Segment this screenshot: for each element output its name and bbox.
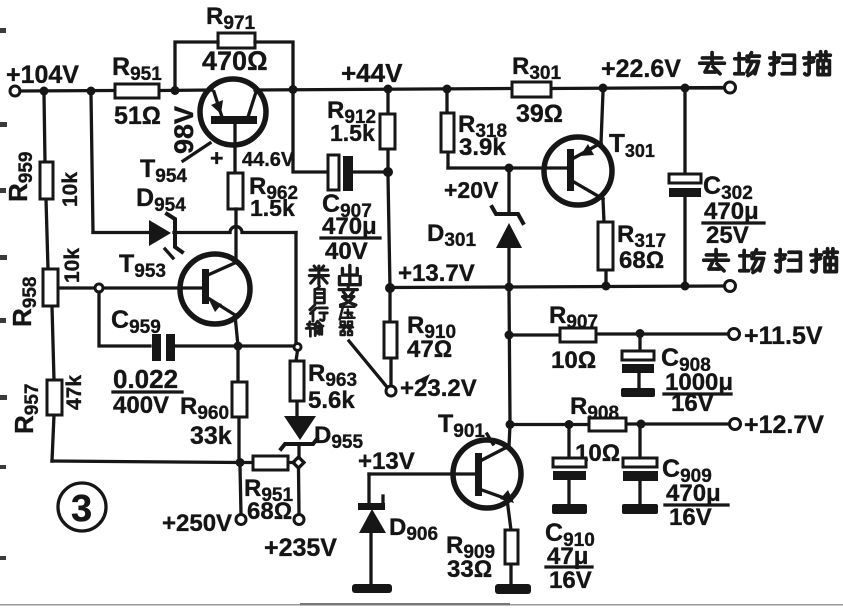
wire to +235V terminal xyxy=(297,468,301,514)
wire +13.7V line xyxy=(390,286,724,288)
svg-text:1.5k: 1.5k xyxy=(330,120,375,146)
resistor R961 xyxy=(253,456,288,470)
transistor T301 xyxy=(544,137,612,205)
node small ring junction right xyxy=(294,344,301,351)
svg-text:+11.5V: +11.5V xyxy=(744,322,823,350)
resistor R959 xyxy=(40,162,53,199)
svg-text:400V: 400V xyxy=(113,392,169,419)
wire T901 emitter xyxy=(507,499,511,584)
transistor T954 xyxy=(200,79,266,145)
wire to +250V terminal xyxy=(240,466,241,514)
resistor R910 xyxy=(384,292,397,386)
wire T954 emitter xyxy=(233,124,236,173)
wire T953 collector to R962 xyxy=(234,209,237,262)
diode D954 xyxy=(149,214,182,258)
resistor R907 xyxy=(560,328,596,342)
wire T301 emitter down xyxy=(603,199,606,286)
label 470u C302 xyxy=(703,198,764,225)
label 47u xyxy=(546,543,592,570)
transistor T901 xyxy=(453,440,521,508)
resistor R909 xyxy=(505,530,518,564)
label T954 xyxy=(140,143,210,187)
svg-text:470μ: 470μ xyxy=(704,198,759,225)
wire R971 feedback loop xyxy=(175,42,293,90)
label +23.2V xyxy=(400,374,477,402)
svg-text:+44V: +44V xyxy=(341,58,403,88)
svg-text:16V: 16V xyxy=(669,504,712,531)
wire D954 branch vertical xyxy=(91,94,93,232)
node C909 tap junction xyxy=(637,420,646,429)
terminal field scan top xyxy=(725,82,736,93)
capacitor C909 xyxy=(623,428,658,504)
terminal +104V xyxy=(10,86,20,96)
wire T953 base xyxy=(60,286,202,289)
svg-text:470μ: 470μ xyxy=(322,213,377,240)
wire C959 left leg xyxy=(99,292,150,346)
wire D906 leg xyxy=(369,474,371,584)
svg-text:470μ: 470μ xyxy=(666,480,721,507)
label 1000u xyxy=(664,369,733,396)
svg-text:10k: 10k xyxy=(61,248,84,283)
svg-text:10Ω: 10Ω xyxy=(551,347,596,374)
resistor R962 xyxy=(228,173,243,209)
diode D955 xyxy=(281,416,317,458)
svg-text:0.022: 0.022 xyxy=(113,364,178,394)
diode D906 zener xyxy=(358,496,386,533)
terminal +12.7V xyxy=(730,419,741,430)
wire T301 collector up xyxy=(601,92,603,143)
resistor R958 xyxy=(43,269,58,306)
svg-text:68Ω: 68Ω xyxy=(247,498,292,525)
wire main +104V/+44V rail xyxy=(20,88,725,92)
svg-text:+20V: +20V xyxy=(444,177,499,203)
resistor R951 xyxy=(115,84,159,98)
svg-text:25V: 25V xyxy=(706,222,749,249)
wire note pointer to +23.2V xyxy=(349,341,387,387)
wire D954 horizontal with hop xyxy=(93,227,296,233)
capacitor C908 xyxy=(622,337,654,388)
node C910 tap junction xyxy=(565,420,574,429)
node R317 bottom junction xyxy=(602,282,611,291)
node diamond junction xyxy=(293,457,304,468)
capacitor C907 xyxy=(328,155,384,191)
svg-text:33k: 33k xyxy=(190,422,232,450)
svg-text:40V: 40V xyxy=(325,238,368,265)
wire R912 down to 13.7 line xyxy=(388,176,390,288)
svg-text:16V: 16V xyxy=(549,567,592,594)
svg-text:10k: 10k xyxy=(59,172,82,207)
node rail junctions xyxy=(40,84,690,96)
diode D301 zener xyxy=(492,172,523,283)
node T953 emitter junction xyxy=(234,342,243,351)
svg-text:98V: 98V xyxy=(169,106,199,154)
terminal +11.5V xyxy=(729,329,740,340)
label 0.022 xyxy=(113,364,182,394)
svg-text:+235V: +235V xyxy=(264,534,337,562)
resistor R971 xyxy=(218,33,255,48)
resistor R318 xyxy=(441,93,454,168)
svg-text:1.5k: 1.5k xyxy=(250,195,295,221)
svg-text:+22.6V: +22.6V xyxy=(601,55,681,83)
svg-text:+23.2V: +23.2V xyxy=(400,375,477,402)
terminal +235V xyxy=(294,515,304,525)
node +12.7V line left junction xyxy=(506,420,515,429)
resistor R912 xyxy=(380,93,395,168)
svg-text:16V: 16V xyxy=(671,390,714,417)
svg-text:39Ω: 39Ω xyxy=(516,100,563,128)
svg-text:3: 3 xyxy=(71,488,92,530)
resistor R963 xyxy=(290,361,304,401)
label qu chang sao miao bottom xyxy=(704,249,838,273)
ground C910 xyxy=(552,504,587,514)
node bottom junction xyxy=(236,458,245,467)
transistor T953 xyxy=(180,254,250,324)
svg-text:+13V: +13V xyxy=(358,448,415,475)
svg-text:68Ω: 68Ω xyxy=(619,247,664,274)
ground C909 xyxy=(622,504,658,514)
wire C907 left leg from rail xyxy=(293,93,328,172)
ground D906 xyxy=(352,584,392,593)
wire R908 line xyxy=(510,422,729,426)
symbol circled 3 xyxy=(58,483,106,531)
wire rail to top-right terminal xyxy=(685,86,725,89)
node R907 tap junction xyxy=(505,331,514,340)
svg-text:47k: 47k xyxy=(63,375,86,410)
svg-text:+250V: +250V xyxy=(162,510,232,537)
node base D301 junction xyxy=(505,164,514,173)
resistor R960 xyxy=(232,350,247,458)
svg-text:+: + xyxy=(210,145,223,171)
svg-text:+12.7V: +12.7V xyxy=(744,411,824,439)
label 470u C909 xyxy=(665,480,728,507)
svg-text:51Ω: 51Ω xyxy=(114,102,161,130)
node D301 bottom junction xyxy=(505,283,514,292)
wire supply vertical x510 xyxy=(509,290,510,421)
resistor R301 xyxy=(512,82,551,97)
node C908 tap junction xyxy=(636,329,645,338)
svg-text:47Ω: 47Ω xyxy=(407,336,452,363)
svg-text:33Ω: 33Ω xyxy=(447,556,492,583)
terminal +23.2V xyxy=(386,386,396,396)
svg-text:470Ω: 470Ω xyxy=(202,46,268,76)
resistor R908 xyxy=(589,418,626,431)
label 470u xyxy=(321,213,380,240)
svg-text:3.9k: 3.9k xyxy=(459,134,506,161)
wire T953 emitter line xyxy=(176,315,294,346)
resistor R317 xyxy=(598,222,613,270)
terminal +250V xyxy=(236,515,246,525)
svg-text:+13.7V: +13.7V xyxy=(398,260,475,287)
label qu chang sao miao top xyxy=(700,52,831,76)
resistor R957 xyxy=(47,380,62,415)
svg-text:5.6k: 5.6k xyxy=(308,387,355,414)
label T901 xyxy=(438,410,493,444)
wire T301 base line xyxy=(448,166,567,169)
capacitor C959 xyxy=(152,334,175,361)
node +13.7V junction xyxy=(385,283,395,293)
capacitor C910 xyxy=(553,429,586,504)
node open ring on base wire xyxy=(95,284,103,292)
wire R963 branch xyxy=(296,233,298,416)
ground R909 xyxy=(495,584,531,594)
note vertical chinese from line output transformer xyxy=(306,265,360,336)
node C907 R912 junction xyxy=(383,167,393,177)
scan artifact left edge marks xyxy=(0,28,7,560)
wire bottom line xyxy=(52,461,294,463)
node C302 bottom junction xyxy=(681,282,690,291)
terminal field scan bottom xyxy=(725,281,736,292)
wire T901 base line xyxy=(369,472,475,475)
wire R907 line xyxy=(509,334,728,335)
capacitor C302 xyxy=(669,92,701,283)
scan artifact bottom line xyxy=(0,603,843,606)
ground C908 xyxy=(621,388,655,397)
svg-text:44.6V: 44.6V xyxy=(242,149,295,171)
wire T901 collector xyxy=(509,425,510,446)
wire left column x44 xyxy=(44,94,54,461)
svg-text:+104V: +104V xyxy=(6,61,79,89)
